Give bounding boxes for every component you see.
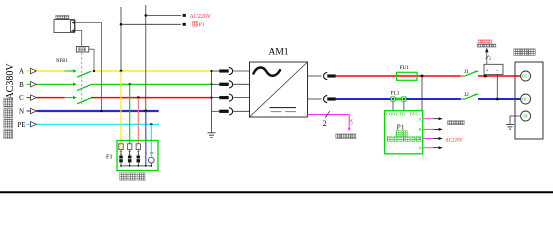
wire detect arrow up with 2-core slash bbox=[485, 48, 491, 65]
svg-text:DC+: DC+ bbox=[522, 75, 530, 79]
label AM1 bbox=[268, 47, 288, 57]
wire tap vertical from phase A (to P1 supply) bbox=[120, 7, 123, 72]
svg-text:AC220V: AC220V bbox=[445, 138, 463, 143]
terminal A (phase label + connector arrow) bbox=[19, 68, 37, 76]
svg-text:P1: P1 bbox=[396, 123, 404, 132]
wire power board pin1 to neutral bbox=[75, 23, 103, 113]
svg-text:FU1: FU1 bbox=[400, 65, 410, 71]
wire neutral N (blue) bbox=[37, 110, 159, 112]
P1 right pin N (magenta lead with arrow) bbox=[419, 145, 443, 150]
wire DC+ (red) AM1 to J1 bbox=[336, 75, 461, 77]
label J1 bbox=[464, 69, 469, 75]
wire phase B after breaker (green) bbox=[91, 83, 211, 85]
svg-text:AC220V: AC220V bbox=[190, 14, 212, 20]
svg-text:2: 2 bbox=[489, 56, 491, 61]
surge board ground bus bbox=[120, 165, 152, 167]
svg-text:NFB1: NFB1 bbox=[56, 59, 68, 64]
breaker NFB1 label bbox=[56, 59, 68, 64]
wire detect + pin to DC+ bbox=[484, 75, 486, 76]
label AC220V at P1 pins L/N (red) bbox=[445, 138, 463, 143]
wire blue drop to surge board bbox=[145, 111, 147, 166]
label DC trigger under arrow bbox=[336, 134, 356, 139]
wire red drop to surge board bbox=[137, 96, 140, 144]
connector plug pair, AM1 input row 2 bbox=[212, 81, 250, 88]
label P1 inside bbox=[396, 123, 404, 132]
P1 text line danxiang bbox=[396, 131, 407, 136]
wire PE (cyan) bbox=[37, 123, 160, 125]
P1 top pin labels CON1 I1+ DV1+ bbox=[386, 111, 421, 116]
connector plug pair, AM1 input row 1 bbox=[212, 67, 250, 74]
breaker NFB1 pole B (green contact blade) bbox=[65, 83, 92, 91]
meter P1 box (green) bbox=[385, 111, 423, 154]
wire phase A left segment (yellow) bbox=[37, 70, 65, 72]
svg-text:+: + bbox=[486, 68, 489, 74]
P1 right pin A (magenta lead with arrow) bbox=[419, 116, 443, 121]
label battery voltage detect bbox=[477, 44, 496, 47]
breaker NFB1 pole A (green contact blade) bbox=[65, 69, 92, 77]
wire detect - pin to DC- bbox=[496, 75, 498, 99]
gun terminal DC- bbox=[521, 94, 531, 104]
label to P1 (red) bbox=[193, 21, 205, 28]
AM1 AC sine symbol bbox=[254, 67, 281, 75]
svg-text:A: A bbox=[419, 116, 422, 121]
power board connector bracket with 2 pins bbox=[71, 20, 75, 31]
svg-text:A: A bbox=[19, 68, 24, 76]
breaker NFB1 mechanical linkage (dashed) bbox=[81, 53, 83, 105]
wire yellow drop to surge board bbox=[120, 70, 122, 144]
wire phase C left segment (red) bbox=[37, 97, 65, 99]
net label: mains input AC380V (vertical) bbox=[4, 63, 16, 139]
breaker NFB1 pole C (green contact blade) bbox=[65, 96, 92, 104]
wire cyan drop to surge board bbox=[150, 123, 152, 157]
fuse FU1 (green rect on red wire) bbox=[397, 72, 418, 80]
terminal N (phase label + connector arrow) bbox=[19, 108, 37, 116]
svg-text:C: C bbox=[19, 94, 24, 102]
svg-text:L: L bbox=[419, 136, 422, 141]
svg-text:FL1: FL1 bbox=[391, 90, 400, 96]
label charging gun bbox=[514, 49, 535, 56]
label AC220V (red) bbox=[190, 14, 212, 20]
label J2 bbox=[464, 92, 469, 98]
ground symbol at gun bbox=[506, 125, 514, 130]
wire PE terminal to ground bbox=[510, 116, 521, 124]
svg-text:PE: PE bbox=[17, 121, 25, 129]
wire DC- J2 to gun bbox=[478, 98, 521, 101]
wire-count slash and numeral 2 bbox=[323, 111, 330, 128]
wire AM1 control output (magenta, 2-core) bbox=[308, 115, 351, 132]
wire trip coil to phase A bbox=[89, 49, 95, 72]
connector plug pair, AM1 output DC- bbox=[308, 95, 336, 102]
power board label (dianyuanban) bbox=[56, 15, 69, 19]
wire DC+ J1 to gun bbox=[478, 75, 521, 78]
gun terminal DC+ bbox=[521, 71, 531, 81]
shunt FL1 on DC- wire bbox=[391, 97, 406, 111]
wire green drop to surge board bbox=[129, 83, 131, 144]
svg-text:PE: PE bbox=[523, 115, 528, 119]
junction after FU1 with drop to P1 DV1+ bbox=[421, 75, 424, 111]
surge arrester column 1: fuse + MOV bbox=[119, 144, 123, 166]
battery voltage detect module box bbox=[484, 64, 503, 74]
svg-text:I1+: I1+ bbox=[400, 111, 407, 116]
label FU1 bbox=[400, 65, 410, 71]
svg-text:B: B bbox=[419, 127, 422, 132]
label surge board (fangleiban) bbox=[120, 173, 145, 180]
surge board indicator circle bbox=[146, 151, 154, 166]
wire tap vertical from neutral bbox=[144, 5, 147, 112]
surge arrester column 3: fuse + MOV bbox=[136, 144, 140, 166]
AM1 DC symbol bbox=[270, 108, 297, 112]
svg-text:N: N bbox=[19, 108, 24, 116]
svg-text:F1: F1 bbox=[106, 153, 113, 160]
wire AM1 input bus vertical with ground bbox=[208, 70, 216, 138]
surge board F1 outline (green box) bbox=[117, 141, 158, 171]
label battery test (red) bbox=[478, 40, 492, 43]
bottom frame line bbox=[0, 191, 553, 193]
svg-text:2: 2 bbox=[351, 122, 353, 126]
contactor J1 on DC+ bbox=[461, 71, 479, 76]
label FL1 bbox=[391, 90, 400, 96]
svg-text:AM1: AM1 bbox=[268, 47, 288, 57]
label F1 bbox=[106, 153, 113, 160]
svg-text:B: B bbox=[19, 81, 24, 89]
small wire-count mark on vertical bbox=[350, 119, 353, 125]
P1 right pin L (magenta lead with arrow) bbox=[419, 136, 443, 141]
svg-text:AC380V: AC380V bbox=[5, 63, 16, 100]
svg-text:−: − bbox=[496, 68, 499, 74]
AC/DC converter AM1 box with diagonal bbox=[250, 62, 308, 117]
gun terminal PE bbox=[521, 111, 531, 121]
shunt trip coil box bbox=[76, 47, 89, 53]
svg-text:J2: J2 bbox=[464, 92, 469, 98]
wire phase A after breaker (yellow) bbox=[91, 70, 211, 72]
power board box bbox=[54, 20, 75, 33]
charging gun box bbox=[515, 62, 543, 139]
svg-text:DC-: DC- bbox=[522, 98, 529, 102]
connector plug pair, AM1 output DC+ bbox=[308, 72, 336, 79]
wire phase B left segment (green) bbox=[37, 83, 65, 85]
wire phase C after breaker (red) bbox=[91, 97, 211, 99]
svg-text:P1: P1 bbox=[199, 22, 205, 28]
wire to-P1 line with arrow bbox=[121, 23, 186, 26]
terminal C (phase label + connector arrow) bbox=[19, 94, 36, 102]
label next to P1 pins A/B bbox=[448, 121, 465, 125]
terminal B (phase label + connector arrow) bbox=[19, 81, 36, 89]
P1 text line meter type bbox=[387, 137, 421, 142]
svg-text:CON1: CON1 bbox=[386, 111, 397, 116]
wire DC- (blue) AM1 to J2 bbox=[336, 98, 461, 100]
connector plug pair, AM1 input row 4 bbox=[212, 108, 250, 115]
terminal PE (phase label + connector arrow) bbox=[17, 121, 36, 129]
svg-text:N: N bbox=[419, 145, 422, 150]
wire AC220V line with arrow bbox=[146, 14, 186, 17]
wire power board pin2 to trip coil bbox=[75, 31, 82, 47]
svg-text:2: 2 bbox=[323, 119, 327, 128]
surge arrester column 2: fuse + MOV bbox=[128, 144, 132, 166]
svg-text:PE: PE bbox=[150, 151, 154, 155]
connector plug pair, AM1 input row 3 bbox=[212, 94, 250, 101]
P1 right pin B (magenta lead with arrow) bbox=[419, 127, 443, 132]
contactor J2 on DC- bbox=[461, 94, 479, 99]
